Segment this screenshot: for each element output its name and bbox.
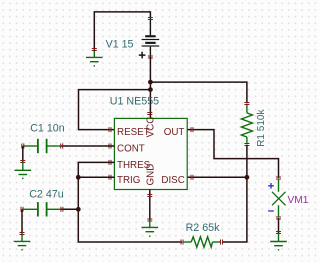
ground G1 (86, 50, 103, 66)
VM1 plus sign (268, 183, 274, 189)
ground G5 (270, 234, 287, 250)
tick battery top (148, 18, 153, 20)
tick RESET pin (109, 127, 111, 132)
wire C1 to CONT (61, 145, 114, 147)
svg-text:OUT: OUT (164, 127, 185, 138)
voltmeter VM1 (272, 180, 286, 218)
node C2 junction (76, 207, 81, 212)
wire VM1 to ground G5 (278, 218, 280, 234)
tick DISC pin (191, 175, 193, 180)
wire THRES-TRIG-C2 bus (78, 162, 182, 242)
tick THRES pin (109, 160, 111, 165)
IC U1 NE555 box (114, 118, 187, 189)
tick C2 left (21, 207, 23, 212)
capacitor C2 47u (22, 202, 61, 216)
svg-text:U1 NE555: U1 NE555 (110, 96, 159, 108)
tick OUT pin (191, 127, 193, 132)
wire battery top (149, 11, 151, 18)
svg-text:TRIG: TRIG (117, 175, 140, 186)
tick VCC pin (147, 113, 152, 115)
tick VM1 bottom (276, 217, 281, 219)
svg-text:DISC: DISC (161, 175, 184, 186)
svg-text:C2 47u: C2 47u (29, 188, 64, 200)
tick R2 left (181, 240, 183, 245)
tick ground G4 (147, 219, 152, 221)
wire TRIG pin (78, 176, 114, 178)
tick R1 bottom (244, 144, 249, 146)
ground G4 (142, 220, 159, 236)
VM1 minus sign (268, 210, 274, 212)
tick C1 right (61, 144, 63, 149)
tick battery bottom (148, 56, 153, 58)
svg-text:VCC: VCC (145, 117, 156, 138)
tick GND pin (147, 195, 152, 197)
wire to R1 top (150, 82, 247, 103)
ground G2 (15, 162, 32, 179)
svg-text:R2 65k: R2 65k (186, 222, 221, 234)
svg-text:CONT: CONT (117, 144, 145, 155)
tick ground G1 (92, 49, 97, 51)
tick VM1 top (276, 177, 281, 179)
wire C1 to ground G2 (22, 146, 24, 162)
resistor R1 510k (241, 104, 252, 145)
wire R1 bottom to DISC node and down to R2 (222, 145, 247, 242)
tick ground G3 (20, 233, 25, 235)
wire IC GND pin to ground G4 (149, 190, 151, 221)
tick C2 right (61, 207, 63, 212)
wire C2 to ground G3 (21, 209, 23, 233)
svg-text:C1 10n: C1 10n (30, 122, 65, 134)
svg-text:R1 510k: R1 510k (256, 109, 267, 147)
node battery-RESET (148, 87, 153, 92)
wire ground G1 drop (93, 11, 95, 49)
battery V1 (139, 18, 159, 58)
svg-text:GND: GND (145, 164, 156, 186)
ground G3 (14, 234, 31, 250)
wire top horizontal battery to ground (94, 11, 150, 13)
tick ground G5 (276, 232, 281, 234)
wire OUT to VM1 (187, 130, 278, 178)
capacitor C1 10n (23, 139, 61, 153)
node DISC-R1-R2 (245, 175, 250, 180)
tick ground G2 (20, 161, 25, 163)
node battery-R1 (148, 80, 153, 85)
tick TRIG pin (109, 175, 111, 180)
tick R2 right (221, 240, 223, 245)
wire C2 to bus (61, 208, 78, 210)
wire battery to VCC with junctions (149, 57, 151, 118)
wire DISC pin (187, 176, 247, 178)
tick CONT pin (109, 144, 111, 149)
svg-text:VM1: VM1 (288, 195, 309, 206)
svg-text:V1 15: V1 15 (106, 39, 134, 51)
tick R1 top (244, 103, 249, 105)
node TRIG junction (76, 175, 81, 180)
tick C1 left (22, 144, 24, 149)
resistor R2 65k (183, 237, 222, 247)
wire RESET bus (79, 90, 151, 130)
